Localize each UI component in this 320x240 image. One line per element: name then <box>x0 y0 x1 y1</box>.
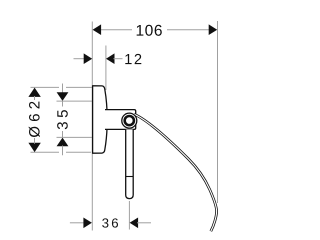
arm <box>105 110 136 130</box>
dimension 35 bottom extension line <box>57 136 93 138</box>
dimension 36 right arrow <box>130 218 139 229</box>
dimension 106 left arrow <box>93 24 102 35</box>
wire spring clip (outer stroke) <box>134 114 216 231</box>
dimension 35 lower tail <box>62 146 64 156</box>
dimension 106 line <box>100 29 132 31</box>
wall extension line <box>91 22 93 231</box>
diameter 62 top arrow <box>28 88 40 97</box>
wall plate (side view slab) <box>93 86 108 153</box>
plate front extension line <box>105 46 107 91</box>
dimension 35 top extension line <box>57 100 93 102</box>
dimension 12 right tail <box>113 58 122 60</box>
wire spring clip (inner white) <box>134 114 216 231</box>
diameter 62 top extension line <box>31 86 93 88</box>
dimension 35 label <box>57 110 68 129</box>
pivot outer circle <box>122 113 137 128</box>
diameter 62 label <box>29 102 40 137</box>
right extension line (106) <box>217 21 219 203</box>
dimension 36 left arrow <box>83 218 92 229</box>
dimension 12 label <box>125 54 141 64</box>
diameter 62 bottom extension line <box>31 151 92 153</box>
dimension 12 right arrow <box>106 53 115 64</box>
dimension 12 left arrow <box>84 53 93 64</box>
dimension 106 label <box>137 25 162 36</box>
diameter 62 bottom arrow <box>28 143 40 152</box>
dimension 12 left tail <box>74 58 85 60</box>
pivot ring <box>125 116 134 125</box>
dimension 35 upper stub <box>62 84 64 94</box>
dimension 36 label <box>102 218 118 227</box>
rod joint line <box>126 176 134 178</box>
diameter 62 dim line stubs <box>34 96 36 100</box>
dimension 35 top arrow <box>57 92 69 101</box>
rod center extension line (36) <box>128 201 130 230</box>
dimension 36 left tail <box>70 222 84 224</box>
dimension 35 bottom arrow <box>57 138 69 147</box>
spare roll rod <box>126 129 134 198</box>
dimension 36 right tail <box>137 222 151 224</box>
dimension 35 inner stubs <box>62 101 64 107</box>
dimension 106 right arrow <box>209 24 218 35</box>
